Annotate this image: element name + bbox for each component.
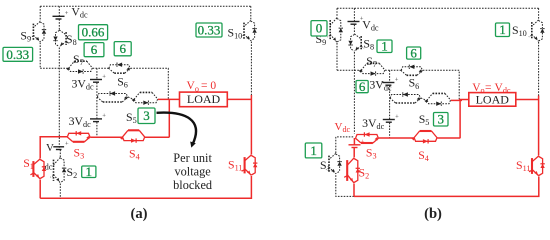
- battery Vdc top (b): [348, 21, 360, 23]
- wire: (b) S11 emitter to bottom rail to S2 junction: [354, 177, 539, 197]
- wire: (a) battery to S8: [58, 19, 60, 29]
- transistor S1 (b): [328, 156, 330, 172]
- wire: (b) battery stub from rail: [353, 8, 355, 21]
- wire: (b) red load-left from S5R: [451, 99, 462, 101]
- wire: (a) S8 emitter long drop to bottom battery: [58, 48, 60, 149]
- wire: (a) red S1 collector up to S3 line: [40, 137, 67, 159]
- wire: (b) S9 collector from rail: [336, 8, 338, 17]
- value box 1 for S8 (b): [377, 40, 392, 53]
- wire: (a) chain between batteries with S5 tap: [96, 83, 98, 119]
- wire: (b) S5 pair step connector: [421, 98, 427, 100]
- svg-text:(a): (a): [130, 206, 147, 222]
- svg-text:6: 6: [359, 79, 366, 94]
- wire: (b) chain drop to 3Vdc battery 1: [389, 70, 391, 82]
- transistor S4 (a): [128, 129, 139, 131]
- battery 3Vdc upper (b): [382, 82, 394, 84]
- svg-text:3: 3: [143, 108, 150, 123]
- wire: (a) red load-left from S5R: [158, 98, 180, 100]
- svg-text:+: +: [395, 76, 399, 83]
- wire: (a) bottom battery to S2: [59, 150, 61, 157]
- value box 3 for S5 (b): [434, 113, 449, 127]
- wire: (a) red riser from S4 up to load-left: [168, 99, 170, 137]
- wire: (b) red right column down to S11: [538, 96, 540, 156]
- wire: (a) S9 collector from rail: [39, 6, 41, 21]
- transistor S10 (a): [243, 23, 245, 39]
- svg-text:V: V: [46, 142, 54, 154]
- wire: (a) S10 emitter down to load-right junction: [250, 42, 252, 96]
- wire: (a) node line S7 to S6: [93, 67, 109, 69]
- value box 0.33 for S9 (a): [3, 47, 33, 61]
- wire: (b) S10 emitter down to load-right junction: [538, 42, 540, 96]
- wire: (b) black S1 collector up and right to S3-left node: [336, 137, 354, 153]
- wire: (b) red drop S3-left to bottom battery: [353, 138, 355, 145]
- value box 1 for S1 (b): [305, 143, 322, 158]
- annotation arrow from box 3 (a): [157, 113, 197, 145]
- battery Vdc bottom red (b): [349, 144, 361, 146]
- transistor S7 (a): [74, 60, 86, 62]
- transistor S2 (b): [346, 160, 348, 181]
- svg-text:+: +: [102, 113, 106, 120]
- transistor S5 right (a): [140, 91, 152, 93]
- wire: (b) S10 collector from rail: [538, 8, 540, 19]
- wire: (b) node line S7 to S6: [385, 69, 401, 71]
- svg-text:0: 0: [316, 21, 323, 36]
- svg-text:1: 1: [310, 143, 317, 158]
- svg-text:1: 1: [499, 22, 506, 37]
- load box (b): [469, 93, 516, 107]
- wire: (a) S5 pair step connector: [128, 97, 134, 99]
- svg-text:0.33: 0.33: [198, 22, 221, 37]
- wire: (b) S9 emitter to node line: [336, 43, 338, 70]
- svg-text:LOAD: LOAD: [187, 92, 221, 106]
- wire: (b) red riser from S4 up to load-left: [459, 100, 461, 139]
- wire: (a) S10 collector from rail: [250, 6, 252, 20]
- wire: (a) node line S6 to corner and down to load-left: [131, 68, 169, 99]
- transistor S2 (a): [53, 160, 55, 181]
- transistor S5 left (a): [103, 101, 122, 103]
- wire: (b) chain down to S3-S4 red line: [389, 123, 391, 138]
- value box 0.33 for S10 (a): [196, 23, 222, 37]
- wire: (a) S11 emitter to bottom rail corner: [40, 176, 251, 198]
- svg-text:+: +: [65, 10, 69, 17]
- value box 6 for S7 (a): [84, 43, 104, 57]
- svg-text:6: 6: [119, 41, 126, 56]
- svg-text:= 0: = 0: [201, 80, 216, 92]
- svg-text:voltage: voltage: [174, 164, 211, 178]
- wire: (a) chain drop to 3Vdc battery 1: [96, 68, 98, 79]
- wire: (a) battery stub from rail: [58, 6, 60, 16]
- battery 3Vdc lower (b): [383, 119, 395, 121]
- transistor S3 (b): [361, 142, 373, 144]
- wire: (a) red line S3 to S4: [90, 136, 122, 138]
- wire: (a) red right column down to S11: [250, 95, 252, 155]
- transistor S6 (a): [114, 72, 124, 74]
- wire: (a) chain down to S3-S4 red line: [96, 122, 98, 137]
- svg-text:+: +: [65, 141, 69, 148]
- value box 0 for S9 (b): [311, 21, 327, 36]
- svg-text:dc: dc: [45, 162, 53, 171]
- transistor S5 right (b): [433, 92, 445, 94]
- battery 3Vdc upper (a): [90, 79, 102, 81]
- transistor S7 (b): [367, 62, 379, 64]
- wire: (a) S2 emitter to bottom rail: [59, 184, 61, 199]
- transistor S1 (a): [32, 161, 34, 177]
- transistor S5 left (b): [396, 102, 415, 104]
- wire: (b) red battery to S2: [353, 148, 355, 158]
- value box 1 for S2 (a): [82, 166, 96, 178]
- wire: (a) red line S4 to riser: [145, 136, 169, 138]
- value box 6 for S7 (b): [356, 81, 368, 93]
- load box (a): [180, 92, 228, 107]
- transistor S4 (b): [420, 130, 432, 132]
- wire: (b) battery to S8: [353, 25, 355, 34]
- transistor S11 (b): [531, 158, 533, 174]
- svg-text:0.33: 0.33: [6, 47, 29, 62]
- transistor S6 (b): [407, 74, 417, 76]
- wire: (b) black bottom rail stub to S1: [336, 175, 354, 197]
- wire: (a) red load-right to right column: [227, 98, 251, 100]
- wire: (b) top rail: [337, 7, 539, 9]
- transistor S3 (a): [73, 141, 85, 143]
- svg-text:3: 3: [438, 112, 445, 127]
- svg-text:+: +: [102, 73, 106, 80]
- value box 6 for S6 (a): [114, 42, 131, 56]
- wire: (a) top rail: [40, 5, 251, 7]
- transistor S8 (b): [360, 36, 362, 49]
- wire: (b) red line S3 to S4: [379, 137, 414, 139]
- transistor S11 (a): [244, 157, 246, 173]
- battery 3Vdc lower (a): [90, 118, 102, 120]
- wire: (b) node line S6 to corner down to load-left: [423, 70, 459, 99]
- wire: (b) red load-right to right column: [516, 99, 539, 101]
- value box 1 for S10 (b): [496, 23, 510, 37]
- transistor S9 (b): [329, 20, 331, 40]
- wire: (b) S8 emitter to node and long drop: [353, 52, 355, 134]
- svg-text:1: 1: [381, 39, 388, 54]
- svg-text:+: +: [395, 113, 399, 120]
- wire: (b) chain between batteries with S5 tap: [389, 86, 391, 120]
- svg-text:6: 6: [410, 46, 417, 61]
- value box 0.66 for S8 (a): [79, 25, 108, 40]
- wire: (a) node line from S9 to S7: [40, 67, 68, 69]
- svg-text:(b): (b): [424, 206, 442, 222]
- value box 6 for S6 (b): [407, 47, 421, 59]
- wire: (a) red left column bottom to S1: [39, 180, 41, 199]
- wire: (b) node line from S9 to S7: [337, 69, 361, 71]
- wire: (b) red S2 emitter to bottom rail: [353, 184, 355, 197]
- svg-text:6: 6: [91, 42, 98, 57]
- transistor S8 (a): [65, 32, 67, 45]
- svg-text:0.66: 0.66: [82, 25, 105, 40]
- battery Vdc top (a): [53, 15, 65, 17]
- svg-text:blocked: blocked: [173, 178, 212, 192]
- transistor S10 (b): [531, 22, 533, 39]
- svg-text:=: =: [485, 82, 492, 94]
- transistor S9 (a): [32, 24, 34, 40]
- svg-text:1: 1: [86, 164, 93, 179]
- wire: (b) red line S4 to riser: [437, 137, 460, 139]
- battery Vdc bottom (a): [53, 146, 64, 148]
- value box 3 for S5 (a): [138, 108, 155, 124]
- wire: (a) S9 emitter to node line: [39, 43, 41, 69]
- svg-text:Per unit: Per unit: [173, 151, 212, 165]
